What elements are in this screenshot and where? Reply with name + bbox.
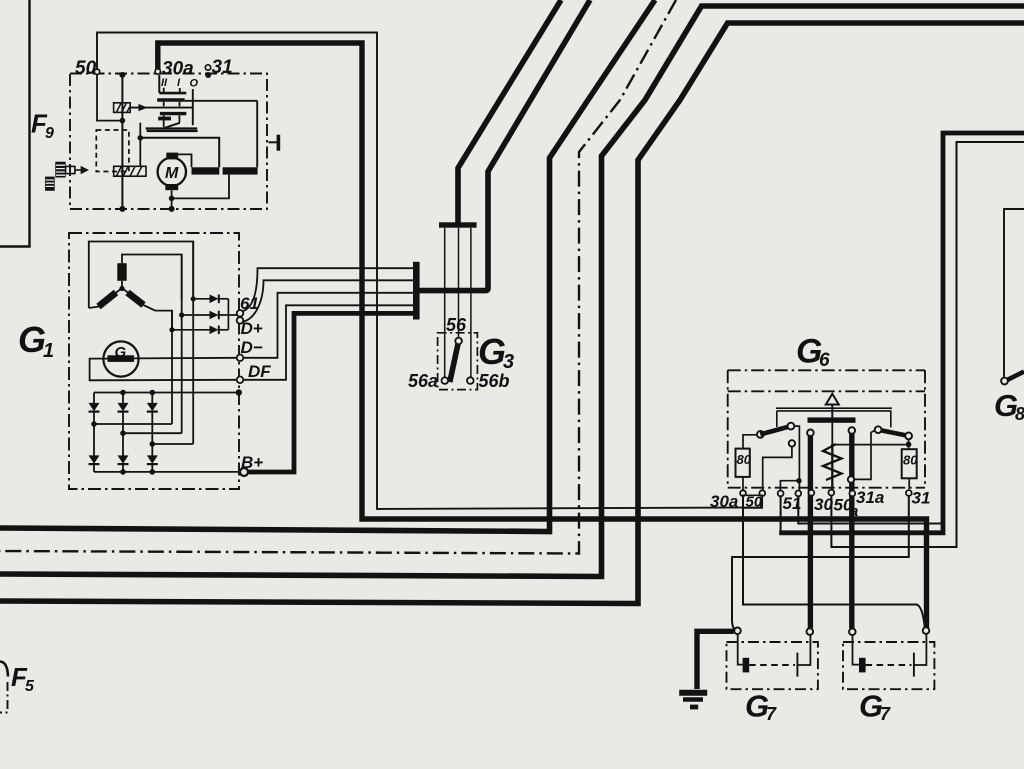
svg-text:9: 9 (45, 125, 54, 142)
svg-text:30a: 30a (162, 59, 194, 80)
winding W rectangle (117, 263, 126, 281)
svg-text:80: 80 (903, 453, 918, 468)
contact tick mid (164, 115, 180, 127)
wire: thick diagonal from top edge to G3 plug bar (458, 0, 561, 223)
boxed label 50 (743, 495, 763, 508)
svg-text:30a: 30a (710, 492, 738, 511)
wire: dash-dot diagonal W4 from top edge down to left bus (0, 0, 676, 554)
wire: plug drop 56a (444, 228, 446, 378)
wire: exciter diode output vertical (227, 299, 229, 330)
terminal DF circle (237, 377, 244, 384)
F5 label (11, 662, 35, 695)
dashed element line (749, 664, 795, 666)
F9 wiper motor unit (45, 65, 280, 212)
terminal 50 circle (94, 69, 99, 74)
svg-text:7: 7 (880, 704, 891, 724)
bridge top rail (94, 392, 239, 394)
wire: rotor brush left to DF loop (90, 359, 237, 381)
contact ticks below bar2 (164, 102, 180, 107)
F5 partial component at left edge (0, 662, 8, 713)
terminal 56b circle (467, 377, 474, 384)
spring zigzag (823, 444, 842, 490)
terminal circle left (734, 628, 741, 635)
wire: 50 lead down to rail (97, 75, 122, 121)
wire: phase tap 1 (94, 423, 172, 425)
right blade tip circle (875, 426, 882, 433)
junction dot above coil 80 right (906, 442, 912, 448)
F5 dash-dot corner (0, 682, 8, 713)
terminal D- circle (237, 355, 244, 362)
wire: thick feed from F9 terminal 30a down and right as bottom bus A to glow plug G7 right (158, 43, 927, 628)
F9 label (31, 57, 233, 142)
wire: arrow line from upper solenoid into switch (130, 107, 192, 109)
switch blade 56 to 56a (450, 343, 459, 383)
contact ticks above bar1 (164, 88, 180, 93)
winding V bar (99, 293, 117, 307)
thick armature bar right (223, 167, 258, 174)
left relay switch pivot (757, 431, 764, 438)
svg-text:80: 80 (737, 452, 752, 467)
wire: lower contact to terminal 50 (763, 447, 792, 490)
thick armature bar left (192, 167, 220, 174)
contact circle on 31a bar (849, 427, 856, 434)
junction dot tap1 (91, 421, 97, 427)
G6 labels (710, 333, 930, 521)
coil 80 left box (736, 449, 752, 477)
star point dot (119, 286, 124, 291)
connector block bar (413, 262, 420, 320)
wire: from rail2 dot right and down to motor bar (140, 138, 219, 168)
svg-text:51: 51 (783, 494, 802, 513)
wire: thick diagonal W6 from right edge down to left bus (0, 23, 1024, 604)
G7 right dash-dot box (843, 642, 934, 689)
wire: rail2 vertical to lower solenoid (139, 123, 141, 167)
wire: DF to connector (244, 305, 414, 380)
G7 left dash-dot box (727, 642, 818, 689)
terminal 31 circle (205, 65, 210, 70)
left blade tip circle (788, 423, 795, 430)
G3 dimmer switch (438, 222, 478, 389)
svg-text:31: 31 (212, 57, 233, 78)
coil 80 right box (902, 449, 919, 478)
junction dot on spare drop (796, 478, 801, 483)
wire: rotor brush right to D- (134, 357, 237, 360)
terminal 30a circle (155, 69, 160, 74)
exciter diode row3 (172, 326, 228, 335)
wire: armature shaft (831, 423, 833, 446)
bridge column 1 (89, 393, 100, 472)
terminal circle left (849, 629, 856, 636)
G6 dash-dot box (728, 370, 925, 487)
electrode pin right (796, 653, 798, 677)
ground (679, 631, 734, 707)
wire: coil 80 left to terminal 30a (742, 477, 744, 490)
exciter diode row2 (182, 311, 237, 320)
terminal 61 circle (237, 310, 244, 317)
wire: left lead into plug (853, 635, 860, 665)
junction dot tap2 (120, 430, 126, 436)
svg-text:G: G (18, 319, 46, 360)
svg-text:56b: 56b (479, 371, 510, 391)
svg-text:1: 1 (43, 340, 54, 362)
heater element electrode (859, 658, 866, 673)
G3 dash-dot box (438, 333, 478, 390)
wiper switch position labels II I O (161, 77, 199, 90)
svg-text:G: G (478, 331, 506, 372)
G7 glow plug left (727, 628, 818, 690)
wire: thick bar G6 terminal 31a down to right glow plug (849, 434, 854, 629)
wire: motor top brush to thick bar (178, 154, 191, 167)
wire: left pivot to coil 80 (743, 435, 757, 449)
winding U bar (128, 293, 144, 306)
junction dot diode1-phase3 (191, 296, 196, 301)
F5 dome arc (0, 662, 8, 677)
wire: phase2 vertical (181, 255, 183, 434)
junction dot diode3-phase1 (169, 327, 174, 332)
wire: left blade tip to spare terminal with branch to 51 (780, 426, 799, 490)
terminal D+ circle (237, 317, 244, 324)
wire: V lead (89, 290, 120, 309)
switch contact bar 3 (thick) (160, 112, 186, 115)
wire: phase3 vertical (192, 242, 194, 445)
svg-text:50: 50 (746, 494, 763, 511)
G7 labels (745, 689, 891, 725)
wire: U lead to phase1 (124, 290, 172, 331)
arrow from knob (75, 166, 89, 174)
wire: right lead into plug (797, 635, 810, 666)
junction dot tap3 (150, 441, 156, 447)
svg-text:3: 3 (503, 351, 514, 373)
wire: D- to connector (244, 293, 414, 358)
wire: B+ thick to connector (248, 313, 414, 472)
wire: G6 terminal 31 to left glow plug ground terminal (732, 496, 909, 630)
G8 blade to edge (1008, 372, 1024, 380)
G1 dash-dot enclosure (69, 233, 239, 489)
terminal 56a circle (442, 377, 449, 384)
wire: page left border line (0, 0, 30, 247)
exciter diode row1 (193, 295, 228, 304)
wire: left lead into plug (738, 634, 743, 665)
svg-text:56: 56 (446, 315, 467, 335)
bridge column 3 (147, 393, 158, 472)
wire: D+ to connector (243, 280, 413, 321)
wire: inner loop right riser (256, 101, 258, 168)
switch stack: feed bracket from 30a (158, 75, 160, 93)
switch contact bar 1 (159, 92, 186, 95)
armature frame double rail (776, 408, 892, 411)
wire: step wire from motor bottom to bar2 (172, 175, 229, 199)
dashed mechanical link box (96, 130, 129, 172)
left lower contact circle (789, 440, 795, 446)
wiper track double line (146, 129, 198, 132)
heater element electrode (743, 658, 750, 673)
armature arrow (826, 394, 839, 418)
bridge bottom rail to B+ (94, 471, 240, 473)
G6 relay box (728, 370, 925, 508)
moving contact block (158, 117, 171, 121)
wire: thick bar G6 terminal 30 down to left glow plug (808, 436, 813, 629)
arrowhead on solenoid line (139, 104, 148, 111)
switch O contact line (192, 89, 194, 125)
svg-text:31: 31 (912, 489, 931, 508)
wire: motor bottom brush to box bottom (171, 190, 173, 209)
svg-text:DF: DF (248, 362, 271, 381)
wire: right blade tip down to bar contact (855, 430, 875, 479)
svg-text:5: 5 (25, 678, 35, 695)
connector pin on F9 right edge (269, 135, 281, 151)
wire: thick diagonal W3 from top edge down to left bus (0, 0, 655, 532)
svg-text:50: 50 (75, 58, 97, 79)
F9 dash-dot enclosure box (70, 74, 267, 210)
junction dot motor bottom (169, 196, 175, 202)
wire: thin line from G6 terminal 50a right and up to right edge (831, 142, 1024, 547)
wires G1 to connector block (243, 262, 419, 472)
right relay blade (878, 430, 909, 436)
junction dot at box bottom (169, 206, 175, 212)
G1 terminal labels (18, 294, 271, 472)
armature crossbar thick (808, 417, 856, 422)
switch contact bar 2 (thick) (157, 98, 184, 102)
wire: phase tap 2 (123, 432, 182, 434)
contact circle on 31a bar lower (848, 476, 854, 482)
wire: thin line from bar2 to inner loop right (185, 100, 258, 102)
svg-text:6: 6 (819, 350, 830, 371)
electrode pin right (913, 653, 915, 677)
wire: left rail inside F9 (121, 75, 123, 209)
G7 glow plug right (843, 627, 934, 689)
wire: thin tie from G6 spare terminal to thick riser (798, 496, 941, 524)
solenoid coil lower (hatched) (114, 166, 146, 176)
wire: coil 80 right to terminal 31 (908, 478, 910, 489)
wire: thick B+ diagonal from top edge down to connector block (419, 0, 590, 291)
wiper diagonal contact (164, 123, 180, 128)
junction dot rail mid (120, 118, 126, 124)
svg-text:31a: 31a (856, 488, 884, 507)
junction dot rail2 (138, 135, 144, 141)
wire: 61 to connector (243, 268, 413, 311)
terminal 56 circle (455, 338, 462, 345)
knob coupling rectangle (66, 166, 75, 173)
G6 dash-dot outer top line (728, 369, 925, 371)
motor M (158, 153, 186, 191)
bridge column 2 (118, 393, 129, 472)
junction dot rail bottom (119, 206, 125, 212)
svg-text:B+: B+ (241, 453, 263, 472)
junction dot diode2-phase2 (179, 312, 184, 317)
contact circle on 30 bar (807, 430, 814, 437)
rotor G with field winding (103, 341, 138, 376)
wire: thick line from 51 right and up to right edge (terminal 30 bus) (779, 133, 1024, 533)
G3 plug bar (439, 222, 477, 227)
junction dots bottom rail (120, 469, 155, 475)
wire: plug drop 56 (458, 228, 460, 338)
junction dot on box edge at 31 (205, 72, 211, 78)
G8 switch partial at right edge (1001, 209, 1024, 384)
svg-text:7: 7 (766, 704, 777, 724)
wire: plug drop 56b (470, 228, 472, 378)
G3 labels (408, 315, 514, 391)
G1 alternator (69, 233, 248, 489)
wire: stator frame from V winding up over to phase3 (89, 242, 193, 309)
wire: right pivot to dot to coil (908, 439, 910, 448)
svg-text:30: 30 (814, 495, 833, 514)
wire: phase tap 3 (152, 443, 193, 445)
manual knob upper striped (55, 162, 65, 178)
svg-text:8: 8 (1015, 404, 1024, 424)
wire: G8 feed from right edge (1004, 209, 1024, 378)
wire: W to star point (121, 281, 123, 289)
wire: right lead into plug (914, 634, 927, 665)
wire: W lead to phase2 (122, 255, 182, 301)
svg-text:56a: 56a (408, 371, 438, 391)
wire: phase1 vertical (171, 311, 173, 424)
terminal circle right (807, 628, 814, 635)
dashed element line (866, 664, 912, 666)
solenoid coil upper (hatched) (114, 103, 131, 113)
terminal B+ circle (240, 468, 248, 476)
wire: G6 terminal 51 drop (780, 496, 782, 531)
junction dot rail top (119, 72, 125, 78)
wire: thick diagonal W5 from right edge top down to left bus (0, 6, 1024, 577)
G8 terminal circle (1001, 378, 1008, 385)
wire: thin loop from F9 terminal 50 up over F9 box, down right side and right to G6 terminal 50 (97, 33, 761, 510)
junction dots top rail (120, 389, 242, 395)
G8 label (994, 388, 1024, 424)
wire: horizontal tie at y444 (833, 444, 906, 446)
right pivot circle (905, 433, 912, 440)
left relay blade (760, 426, 791, 434)
manual knob lower striped (45, 177, 55, 191)
svg-text:M: M (165, 165, 179, 182)
G6 terminal circles (740, 490, 912, 497)
wire: G6 terminal 30a down and right to glow plug G7 right terminal (743, 496, 925, 628)
terminal circle right (923, 627, 930, 634)
svg-text:D−: D− (241, 338, 263, 357)
